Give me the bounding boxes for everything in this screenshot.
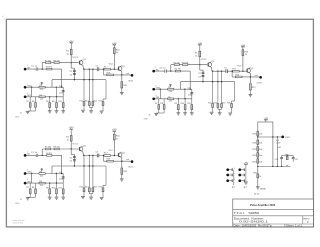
wire lower rail B [181,81,235,83]
resistor RC7 [26,183,31,197]
power flag VCCC2 [112,129,117,134]
sheet text [286,225,303,228]
wire lower rail left drop A [51,80,53,88]
title block sheet divider [284,224,286,227]
ground R10 A [55,111,59,113]
svg-text:22k: 22k [40,99,43,101]
wire rowB-rowC link B [159,89,161,99]
resistor RB15 [227,102,232,112]
label JPL3 [234,179,235,181]
resistor RC14 [92,187,97,194]
ground pair C [15,198,30,205]
ground R12 B [210,112,214,114]
wire lower rail C [52,165,106,167]
resistor RA3 [53,60,59,63]
label R25 val [259,176,261,178]
docnum value [239,221,269,224]
transistor QB2 [247,68,255,74]
svg-text:J2: J2 [148,115,150,117]
junction midcap-rail C [74,165,75,166]
wire power1 stem C [70,131,72,149]
title banner text [250,203,276,207]
svg-text:OUT1: OUT1 [128,167,134,169]
svg-text:R3 24k: R3 24k [53,147,59,149]
wire emitter rail A [83,68,118,70]
input pad JAB [24,83,28,88]
resistor RC15 [99,187,104,197]
ground R11 B [190,113,194,115]
svg-text:REV:: REV: [303,218,310,220]
input pad JCA [24,152,28,157]
resistor RC18 [107,159,114,162]
svg-text:22k: 22k [40,89,43,91]
ground R9 A [48,111,52,113]
svg-text:1k: 1k [259,176,261,178]
resistor RB17 [232,68,239,72]
wire row C C [26,182,63,184]
wire mid jog B [200,65,203,82]
capacitor CA4 [59,86,65,97]
junction tap branch [277,136,278,137]
resistor RC17 [104,153,111,157]
junction rowA-rail A [42,68,43,69]
resistor RA16 [113,48,120,54]
wire top rail B [171,64,207,66]
power flag VCCB1 [198,42,203,47]
wire JPL1 [229,168,232,171]
resistor RC12 [80,187,85,197]
svg-text:1k: 1k [116,52,118,54]
svg-text:R8: R8 [160,103,162,105]
resistor RA12 [80,100,85,110]
resistor RA18 [107,72,114,75]
wire emitter rail B [212,70,247,72]
wire pair2 bus A [89,107,93,110]
resistor RC2 [45,147,51,150]
svg-text:R10: R10 [52,187,55,189]
junction power1-rail A [71,62,72,63]
resistor RA14 [92,100,97,107]
resistor R22 [253,147,264,152]
junction rowC r2 C [56,182,57,183]
wire ladder right rail [272,122,274,166]
ground pair2 B [218,113,222,115]
tap pad [281,136,284,139]
junction rail droppers C [83,165,93,166]
svg-text:VCC1: VCC1 [201,59,207,61]
resistor RC3 [53,147,59,150]
wire l4 [257,157,259,159]
junction rowC r2 B [184,98,185,99]
resistor RB12 [208,102,213,112]
svg-text:GND: GND [15,203,20,205]
junction power1-rail C [71,148,72,149]
wire tap branch down [276,137,278,166]
ground R9 C [48,197,52,199]
svg-text:OUT1: OUT1 [128,80,134,82]
wire outrow feed C [103,155,104,161]
ground pair A [15,111,30,118]
wire ladder rung 1 [258,136,273,138]
svg-text:R13: R13 [214,102,217,104]
svg-text:R7: R7 [26,101,28,103]
junction rail droppers B [212,81,222,82]
wire power1 stem A [70,45,72,63]
title block line 1 [233,209,314,211]
wire pair2 bus B [218,109,222,112]
resistor RA4 [46,67,52,70]
capacitor CA1 [31,66,38,71]
wire l3 [257,151,259,153]
dropper 3 C [92,155,93,188]
wire rail corner A [41,63,43,69]
svg-text:VCC1: VCC1 [72,57,78,59]
jumper pad JPR1 [238,168,241,171]
ground ladder [256,187,260,189]
transistor QB1 [208,61,216,67]
junction rail droppers A [83,79,93,80]
wire row C A [26,96,63,98]
net label VCCB1 [201,59,207,61]
ground pair B [144,113,159,120]
svg-text:R3 24k: R3 24k [182,62,188,64]
label input A C [27,154,31,156]
svg-text:C20: C20 [275,159,278,161]
capacitor CB3 [198,75,204,78]
ground R9 B [176,113,180,115]
resistor RB16 [242,50,249,56]
wire lower rail A [52,79,106,81]
junction rowC r1 B [178,98,179,99]
label out A [126,72,129,75]
ground Q2 C [120,179,124,181]
svg-text:R4 47k: R4 47k [46,67,52,69]
wire lower rail left drop B [180,82,182,90]
dropper 4 C [103,166,106,188]
resistor RC9 [46,183,51,197]
resistor RA17 [104,66,111,70]
input pad JAC [24,93,28,98]
capacitor CB4 [188,88,194,99]
resistor RA1 [66,49,72,55]
svg-text:R2 24k: R2 24k [45,147,51,149]
resistor RB18 [235,74,242,77]
resistor RB13 [214,102,219,109]
svg-text:R9: R9 [175,103,177,105]
input pad JAA [24,65,28,70]
net label VCCC1 [72,144,78,146]
svg-text:C1 1u: C1 1u [31,66,37,68]
svg-text:R2 24k: R2 24k [173,62,179,64]
junction rowB right B [190,89,191,90]
output pad JCO [131,160,134,163]
power flag ladder [264,117,269,122]
svg-text:out: out [126,158,129,161]
wire ladder left rail [257,122,259,132]
input pad JBC [152,95,156,100]
rev value [307,220,309,224]
wire R19 gnd A [121,88,123,92]
svg-text:R4 47k: R4 47k [175,69,181,71]
ground pair2 C [89,197,93,199]
junction rowB mid C [56,173,57,183]
resistor R23 [253,153,264,158]
ground R12 C [81,197,85,199]
label ladder gnd2 [254,193,260,196]
resistor RA15 [99,100,104,110]
dropper 3 B [221,71,222,104]
svg-text:R3 24k: R3 24k [53,60,59,62]
capacitor CB2 [198,72,204,75]
input pad JCC [24,179,28,184]
capacitor CA3 [70,73,76,76]
diode DA1 [41,82,43,85]
output pad JBO [259,76,262,79]
svg-text:T.T.C.I. S9050: T.T.C.I. S9050 [234,211,260,215]
svg-text:R15: R15 [227,102,230,104]
svg-text:C1 1u: C1 1u [31,152,37,154]
label input C A [27,95,31,97]
title block line 3 [233,223,314,225]
svg-text:R11: R11 [187,103,190,105]
wire row C B [155,98,192,100]
ground Q2 A [120,93,124,95]
wire power2 stem C [113,133,115,155]
label JPL2 [234,173,235,175]
junction rowB mid A [56,87,57,97]
label JPL name [232,187,236,189]
wire outrow feed B [231,71,232,77]
wire cluster top [282,155,294,156]
wire lower rail left drop C [51,166,53,174]
power flag VCCB2 [241,44,246,49]
wire ladder rung 2 [257,166,290,167]
wire R19 gnd C [121,174,123,178]
footer note line 2 [13,222,24,224]
svg-text:1k: 1k [195,55,197,57]
wire rowA drop B [189,71,191,89]
junction midcap-rail A [74,79,75,80]
label tap [285,137,291,139]
wire rail corner B [170,65,172,71]
junction outrow A [121,74,122,75]
rev label [303,218,310,220]
date text [234,225,273,228]
junction rowB right C [61,173,62,174]
input pad JBA [152,67,156,72]
wire JPR rail [245,167,247,182]
resistor R21 [253,140,264,145]
label input A A [27,67,31,69]
svg-text:ref2: ref2 [278,146,281,149]
transistor QA1 [79,59,87,65]
dropper 3 A [92,69,93,102]
resistor R24 [253,159,264,164]
jumper pad JPL1 [226,168,229,171]
svg-text:0.92-SN3/0.1: 0.92-SN3/0.1 [239,221,269,224]
wire l1 [257,136,258,140]
capacitor CA5 [96,65,99,71]
junction outrow B [250,76,251,77]
resistor RB5 [168,87,174,93]
svg-text:VOUT: VOUT [285,137,291,139]
svg-text:R10: R10 [52,101,55,103]
title block frame [233,199,314,227]
dropper 2 C [89,155,90,188]
svg-text:R2 24k: R2 24k [45,60,51,62]
wire pair2 bus C [89,194,93,197]
wire rowA drop C [61,155,63,173]
svg-text:22k: 22k [40,175,43,177]
junction rowB mid B [184,89,185,99]
capacitor CC1 [31,152,38,157]
resistor RA13 [85,100,90,107]
svg-text:R11: R11 [59,187,62,189]
svg-text:C21: C21 [295,159,298,161]
wire top rail A [42,62,78,64]
net label VCCB2 [237,66,242,68]
svg-text:J2: J2 [20,199,22,201]
wire Q1 emitter A [82,65,85,69]
junction rowC r2 A [56,96,57,97]
resistor RA19 [121,82,128,88]
wire row B C [26,173,63,175]
resistor RA9 [46,97,51,111]
svg-text:R4 47k: R4 47k [46,153,52,155]
capacitor CA2 [70,70,76,73]
ground pair2 A [89,111,93,113]
junction rowB left B [160,89,161,90]
resistor RC1 [66,136,72,142]
resistor R20 [253,132,264,136]
wire l2 [257,144,259,146]
dropper 4 A [103,80,106,102]
wire JPL3 [229,179,232,182]
svg-text:R9: R9 [46,187,48,189]
wire pair bus B [156,112,164,114]
label ladder gnd [260,188,266,191]
wire output row C [104,160,131,162]
svg-text:R13: R13 [85,187,88,189]
corner speckle [1,15,5,21]
ground R10 C [55,197,59,199]
wire mid jog C [71,149,74,166]
junction midcap-rail B [202,81,203,82]
net label VCCA2 [109,64,114,66]
dropper 4 B [232,82,235,104]
net label VCCA1 [72,57,78,59]
junction power1-rail B [199,64,200,65]
output pad JAO [131,74,134,77]
resistor RA6 [39,95,45,101]
svg-text:10/05 09:57a: 10/05 09:57a [13,222,24,224]
wire JPL2 [229,174,232,177]
wire ladder top bar [258,121,273,123]
ground JPR [244,182,248,184]
resistor RC19 [121,168,128,174]
resistor RC5 [39,172,45,178]
resistor RB7 [155,99,160,113]
wire JPR1 [241,168,244,171]
wire outrow feed A [103,69,104,75]
label out B [255,74,258,77]
wire power2 stem B [242,49,244,71]
jumper pad JPL3 [226,179,229,182]
junction rung1 right [272,136,273,137]
wire output row B [232,76,259,78]
wire top rail C [42,148,78,150]
svg-text:1k: 1k [116,139,118,141]
jumper pad JPR3 [238,179,241,182]
junction outrow C [121,161,122,162]
capacitor C20 [275,155,283,166]
svg-text:OUT1: OUT1 [257,82,263,84]
wire R19 gnd B [249,90,251,94]
ground R12 A [81,110,85,112]
label input A B [156,69,160,71]
resistor RC10 [52,183,58,197]
resistor RB2 [173,62,179,65]
wire row B A [26,86,63,88]
wire emitter rail C [83,155,118,157]
junction rowA-rail C [42,155,43,156]
junction power2-rail C [114,155,115,156]
label out C [126,158,129,161]
ground R10 B [183,113,187,115]
footer note line 1 [12,219,25,222]
resistor RC4 [46,153,52,156]
wire rowB-rowC link A [31,87,33,97]
wire rowB-rowC link C [31,174,33,184]
capacitor CC3 [70,160,76,163]
svg-text:1k: 1k [245,54,247,56]
wire Q2 collector B [249,73,251,83]
net label mid [278,146,281,149]
resistor RA2 [45,60,51,63]
resistor RB9 [175,99,180,113]
wire row B B [155,88,192,90]
label JPL1 [234,168,235,170]
label input B B [156,87,161,89]
junction power2-rail A [114,69,115,70]
power flag VCCA1 [69,40,74,45]
svg-text:R12: R12 [80,187,83,189]
net label VCCC2 [109,150,114,152]
junction power2-rail B [242,71,243,72]
svg-text:R27: R27 [285,155,288,157]
diode DC1 [41,168,43,171]
svg-text:R8: R8 [32,187,34,189]
resistor RB11 [187,99,192,113]
svg-text:R7: R7 [155,103,157,105]
wire JPR2 [241,174,244,177]
input pad JCB [24,170,28,175]
svg-text:R7: R7 [26,187,28,189]
jumper pad JPL2 [226,174,229,177]
resistor RC13 [85,187,90,194]
ground R15 A [100,111,104,113]
wire JPL rail [233,170,235,185]
wire output row A [104,74,131,76]
label output C [128,167,134,169]
ground Q2 B [249,95,253,97]
wire tap out [273,136,282,138]
resistor RA10 [52,97,58,111]
label rung2 [286,164,289,167]
resistor R25 [253,172,258,186]
label input C C [27,181,31,183]
svg-text:out: out [255,74,258,77]
